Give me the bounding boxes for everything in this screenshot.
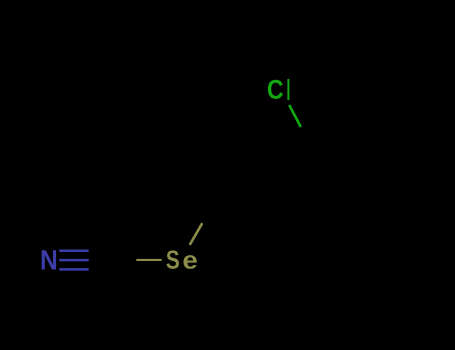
atom label Se: letter e (183, 255, 196, 269)
bond C-Se (selenium half, olive line) (136, 259, 161, 261)
bond Cl-C2 (chlorine half, green diagonal) (289, 105, 301, 127)
atom label N (nitrogen of selenocyanate) (42, 250, 56, 269)
triple bond N#C (nitrogen half, three blue lines) (59, 251, 88, 270)
atom label Cl: letter l (287, 79, 289, 100)
bond Se-CH2 (selenium half, olive diagonal) (190, 223, 203, 245)
atom label Cl: letter C (chlorine) (268, 80, 283, 99)
atom label Se: letter S (selenium) (166, 250, 178, 269)
